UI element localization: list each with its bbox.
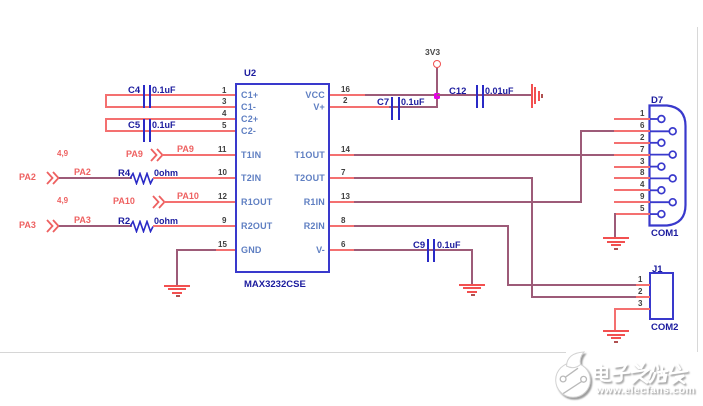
pin name R1OUT — [241, 198, 273, 207]
port PA9 chevron — [150, 148, 164, 162]
J1 pin 2 stub — [636, 296, 650, 298]
capacitor C12 label — [449, 87, 466, 97]
wire C5 loop left vertical — [105, 118, 107, 132]
pin name T2IN — [241, 174, 261, 183]
wire V+ vertical to junction — [436, 94, 438, 108]
COM1 pin 7 stub — [614, 154, 650, 156]
J1 pin 2 number — [638, 288, 642, 296]
wire R2IN stub — [330, 225, 355, 227]
J1 pin 3 number — [638, 300, 642, 308]
port PA2 chevron — [46, 171, 60, 185]
net label PA9 — [177, 145, 194, 154]
watermark text 电子发烧友 — [545, 345, 703, 406]
COM1 pin 9 number — [640, 193, 644, 201]
J1 pin 1 number — [638, 276, 642, 284]
resistor R2 label — [118, 217, 130, 227]
power port 3V3 circle — [433, 60, 441, 68]
wire R4 to T2IN — [153, 177, 235, 179]
wire GND pin15 vertical — [176, 249, 178, 285]
wire COM1 pin5 to ground — [614, 213, 616, 237]
capacitor C12 value 0.01uF — [485, 87, 514, 96]
pin name T2OUT — [241, 174, 325, 183]
ground (J1 COM2) — [603, 330, 629, 332]
wire V+ horizontal — [389, 106, 437, 108]
connector D7 DB9 body — [648, 104, 689, 229]
capacitor C7 value 0.1uF — [401, 98, 425, 107]
pin number 12 — [218, 193, 227, 201]
pin number 13 — [341, 193, 350, 201]
wire PA10 to R1OUT — [164, 201, 235, 203]
port PA3 chevron — [46, 219, 60, 233]
junction dot 3V3/VCC — [434, 93, 440, 99]
port PA2 name — [19, 173, 36, 182]
wire GND pin15 horizontal — [176, 249, 216, 251]
connector J1 label COM2 — [651, 323, 678, 333]
net label PA10 — [177, 192, 199, 201]
pin name T1IN — [241, 151, 261, 160]
capacitor C4 plate A — [143, 85, 145, 108]
net label PA2 — [74, 168, 91, 177]
wire VCC pin16 stub — [330, 94, 366, 96]
wire T2OUT to J1 pin2 — [531, 296, 638, 298]
capacitor C9 plate B — [433, 239, 435, 262]
pin number 9 — [222, 217, 226, 225]
pin number 7 — [341, 169, 345, 177]
wire T2OUT horizontal — [354, 177, 532, 179]
COM1 pin 8 stub — [614, 177, 650, 179]
pin name C1+ — [241, 91, 258, 100]
COM1 pin 2 number — [640, 134, 644, 142]
pin number 14 — [341, 146, 350, 154]
pin name VCC — [241, 91, 325, 100]
capacitor C4 value 0.1uF — [152, 86, 176, 95]
COM1 pin 9 stub — [614, 201, 650, 203]
annotation 4,9 (PA9 row) — [57, 150, 68, 158]
pin name C2- — [241, 127, 256, 136]
wire T2OUT vertical — [531, 177, 533, 298]
wire T1OUT stub — [330, 154, 355, 156]
COM1 pin 5 stub — [614, 213, 650, 215]
wire R2IN vertical — [507, 225, 509, 286]
annotation 4,9 (PA10 row) — [57, 197, 68, 205]
pin number 16 — [341, 86, 350, 94]
pin name R2OUT — [241, 222, 273, 231]
COM1 pin 8 number — [640, 169, 644, 177]
wire V- stub — [330, 249, 355, 251]
wire R1IN to COM1 pin6 — [580, 130, 617, 132]
wire PA3 to R2 — [59, 225, 132, 227]
pin name R1IN — [241, 198, 325, 207]
pin name V- — [241, 246, 325, 255]
wire C5 loop top (pin4) — [105, 118, 235, 120]
wire R2 to R2OUT — [153, 225, 235, 227]
capacitor C5 plate B — [149, 119, 151, 142]
wire R1IN vertical — [580, 130, 582, 203]
COM1 pin 3 stub — [614, 166, 650, 168]
capacitor C12 plate A — [476, 85, 478, 108]
wire PA9 to T1IN — [162, 154, 235, 156]
wire J1 pin3 to ground — [614, 308, 616, 330]
port PA9 name — [126, 150, 143, 159]
pin number 2 — [343, 97, 347, 105]
wire V- horizontal — [354, 249, 473, 251]
watermark url www.elecfans.com — [596, 385, 695, 396]
COM1 pin 1 stub — [614, 118, 650, 120]
wire R1IN stub — [330, 201, 355, 203]
pin name T1OUT — [241, 151, 325, 160]
pin name R2IN — [241, 222, 325, 231]
capacitor C9 label — [413, 241, 425, 251]
capacitor C5 value 0.1uF — [152, 121, 176, 130]
wire V+ pin2 stub — [330, 106, 390, 108]
resistor R4 value 0ohm — [154, 169, 178, 178]
wire T1OUT to COM1 pin7 — [354, 154, 616, 156]
ground (U2 GND) — [164, 285, 190, 287]
pin name GND — [241, 246, 262, 255]
COM1 pin 5 number — [640, 205, 644, 213]
ground (C12, rotated) — [531, 84, 533, 108]
pin number 8 — [341, 217, 345, 225]
capacitor C9 value 0.1uF — [437, 241, 461, 250]
capacitor C9 plate A — [427, 239, 429, 262]
resistor R4 label — [118, 169, 130, 179]
J1 pin 1 stub — [636, 284, 650, 286]
wire V- vertical — [471, 249, 473, 284]
resistor R2 zigzag — [130, 220, 154, 233]
net label PA3 — [74, 216, 91, 225]
wire T2OUT stub — [330, 177, 355, 179]
capacitor C5 plate A — [143, 119, 145, 142]
ground (V- / C9) — [459, 284, 485, 286]
COM1 pin 4 number — [640, 181, 644, 189]
op IC U2 body — [235, 83, 330, 273]
COM1 pin 1 number — [640, 110, 644, 118]
wire PA2 to R4 — [59, 177, 132, 179]
capacitor C4 label — [128, 86, 140, 96]
pin number 5 — [222, 122, 226, 130]
sheet border right — [697, 27, 698, 352]
resistor R2 value 0ohm — [154, 217, 178, 226]
capacitor C12 plate B — [482, 85, 484, 108]
capacitor C4 plate B — [149, 85, 151, 108]
pin number 15 — [218, 241, 227, 249]
connector J1 body — [649, 272, 674, 320]
capacitor C7 plate A — [391, 97, 393, 120]
pin name V+ — [241, 103, 325, 112]
pin number 6 — [341, 241, 345, 249]
capacitor C7 label — [377, 98, 389, 108]
wire C4 loop bottom (pin3) — [105, 106, 235, 108]
COM1 pin 2 stub — [614, 142, 650, 144]
wire R2IN horizontal — [354, 225, 507, 227]
wire C5 loop bottom (pin5) — [105, 130, 235, 132]
COM1 pin 3 number — [640, 158, 644, 166]
COM1 pin 7 number — [640, 146, 644, 154]
port PA10 name — [113, 197, 135, 206]
wire R1IN horizontal — [354, 201, 581, 203]
COM1 pin 4 stub — [614, 189, 650, 191]
ground (COM1) — [603, 237, 629, 239]
U2 value MAX3232CSE — [244, 280, 306, 290]
resistor R4 zigzag — [130, 172, 154, 185]
watermark logo disc — [545, 345, 703, 406]
wire GND pin15 stub — [214, 249, 235, 251]
connector D7 label COM1 — [651, 229, 678, 239]
COM1 pin 6 stub — [614, 130, 650, 132]
pin number 1 — [222, 87, 226, 95]
port PA3 name — [19, 221, 36, 230]
wire C4 loop left vertical — [105, 94, 107, 108]
J1 pin 3 stub — [614, 308, 650, 310]
capacitor C7 plate B — [398, 97, 400, 120]
pin number 4 — [222, 110, 226, 118]
wire R2IN to J1 pin1 — [507, 284, 638, 286]
sheet border bottom — [0, 352, 566, 353]
capacitor C5 label — [128, 121, 140, 131]
pin name C2+ — [241, 115, 258, 124]
pin number 11 — [218, 146, 226, 154]
wire 3V3 stem — [436, 68, 438, 96]
connector D7 designator — [651, 96, 663, 106]
power port 3V3 label — [425, 48, 440, 57]
U2 designator — [244, 69, 256, 79]
pin name C1- — [241, 103, 256, 112]
pin number 10 — [218, 169, 227, 177]
pin number 3 — [222, 98, 226, 106]
wire VCC to junction — [365, 94, 437, 96]
wire C12 net — [437, 94, 532, 96]
port PA10 chevron — [152, 195, 166, 209]
wire C4 loop top (pin1) — [105, 94, 235, 96]
COM1 pin 6 number — [640, 122, 644, 130]
connector J1 designator — [652, 265, 663, 275]
